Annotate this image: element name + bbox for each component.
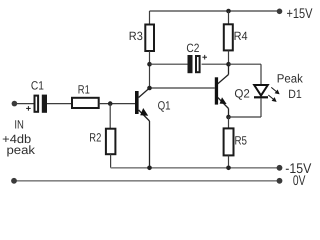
wire +15V top rail: [150, 10, 280, 12]
svg-text:R5: R5: [235, 133, 248, 147]
junction Q1 collector node: [147, 86, 152, 91]
svg-text:Peak: Peak: [277, 72, 304, 86]
junction top rail / R4: [226, 9, 231, 14]
capacitor C2: [188, 55, 200, 73]
svg-text:Q1: Q1: [158, 98, 171, 112]
svg-text:R3: R3: [129, 29, 143, 43]
capacitor C1: [35, 95, 48, 113]
svg-text:0V: 0V: [293, 172, 306, 188]
junction Q2 emitter node: [226, 115, 231, 120]
wire R3 bottom to Q1 collector node: [149, 51, 151, 88]
wire D1 cathode to Q2 emitter node: [229, 98, 262, 117]
terminal +15V: [277, 9, 283, 15]
wire R5 top lead: [228, 117, 230, 128]
LED D1: [254, 85, 268, 98]
svg-text:C1: C1: [31, 79, 44, 93]
wire R1 to Q1 base: [99, 103, 135, 105]
LED D1 light arrows: [268, 87, 279, 101]
terminal 0V left: [11, 178, 17, 184]
resistor R5: [224, 128, 234, 155]
junction Q2 collector node: [226, 62, 231, 67]
wire C2 tap: [150, 63, 188, 65]
arrow Q2 emitter: [220, 97, 227, 104]
terminal -15V: [277, 165, 283, 171]
plus sign C2: [202, 55, 207, 60]
wire Q1 collector node to Q2 base: [150, 87, 215, 89]
wire -15V rail: [111, 167, 280, 169]
wire R5 bottom lead: [228, 155, 230, 167]
wire R2 top lead: [109, 104, 111, 129]
junction Q1 emitter / -15V rail: [147, 166, 152, 171]
junction R5 / -15V rail: [226, 166, 231, 171]
svg-text:+15V: +15V: [287, 5, 314, 21]
plus sign C1: [26, 106, 31, 111]
terminal IN: [12, 101, 18, 107]
resistor R4: [224, 24, 233, 50]
resistor R3: [145, 25, 154, 52]
transistor Q2: [215, 77, 218, 104]
junction R2 tap node: [108, 101, 113, 106]
svg-text:R1: R1: [78, 82, 90, 96]
wire Q1 emitter: [139, 110, 150, 168]
wire Q2 collector: [218, 64, 229, 84]
resistor R1: [72, 98, 99, 108]
transistor Q1: [135, 91, 139, 114]
wire IN to C1: [14, 103, 33, 105]
wire Q1 collector: [139, 88, 150, 98]
wire R2 bottom lead: [110, 154, 112, 168]
arrow Q1 emitter: [140, 108, 148, 116]
junction C2 tap node: [147, 62, 152, 67]
svg-text:peak: peak: [7, 143, 37, 157]
svg-text:R2: R2: [89, 130, 101, 144]
svg-text:D1: D1: [288, 87, 302, 101]
wire Q2 emitter: [218, 98, 229, 118]
svg-text:Q2: Q2: [234, 86, 250, 100]
wire R3 top lead: [149, 11, 151, 25]
wire C1 to R1: [47, 103, 72, 105]
wire D1 anode branch: [229, 64, 262, 85]
svg-text:IN: IN: [14, 117, 24, 131]
svg-text:C2: C2: [186, 41, 199, 55]
wire R4 bottom lead: [228, 50, 230, 64]
wire 0V rail: [14, 180, 280, 182]
resistor R2: [106, 129, 116, 155]
wire C2 to Q2 collector node: [202, 63, 229, 65]
terminal 0V right: [277, 178, 283, 184]
wire R4 top lead: [228, 11, 230, 24]
svg-text:R4: R4: [234, 29, 248, 43]
